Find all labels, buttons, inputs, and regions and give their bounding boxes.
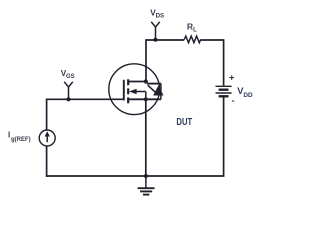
wire right vertical from battery - to bottom-right corner	[146, 97, 224, 176]
svg-text:DD: DD	[243, 92, 253, 99]
battery VDD plate 3 long	[216, 92, 232, 94]
DUT MOSFET circle	[109, 64, 160, 115]
svg-text:GS: GS	[66, 74, 75, 80]
body diode anode lead diagonal	[148, 85, 156, 92]
current source Ig(REF) circle	[39, 130, 55, 146]
ground bar 2	[140, 190, 152, 192]
battery VDD plate 4 short thick	[219, 95, 229, 97]
wire gate horizontal (left corner to gate bar)	[46, 98, 124, 100]
MOSFET body arrow (points left)	[129, 89, 137, 95]
MOSFET channel dash top	[127, 79, 129, 85]
wire right vertical from top-right corner to battery +	[223, 39, 225, 85]
body diode right vertical	[160, 84, 162, 100]
wire drain stem from top node down into DUT	[145, 39, 147, 81]
battery VDD plate 2 short thick	[219, 88, 229, 90]
svg-text:g(REF): g(REF)	[11, 137, 31, 143]
node dot drain junction	[144, 79, 148, 83]
MOSFET channel dash middle	[127, 88, 129, 94]
current source arrow (up)	[46, 136, 48, 142]
MOSFET drain bar	[129, 81, 147, 83]
body diode filled triangle	[153, 85, 163, 95]
battery plus sign	[229, 75, 234, 80]
MOSFET body-to-source tie	[145, 92, 147, 100]
ground bar 1	[138, 187, 155, 189]
svg-text:L: L	[193, 27, 197, 33]
node dot at V_GS probe junction	[66, 97, 70, 101]
V_DS probe stem and Y arms	[151, 22, 160, 40]
wire source stem down to ground node	[145, 99, 147, 176]
MOSFET channel dash bottom	[127, 97, 129, 103]
wire top horizontal right segment (resistor to top-right corner)	[201, 39, 224, 41]
ground bar 3	[143, 194, 149, 196]
body diode cathode bar	[147, 83, 161, 85]
svg-text:I: I	[8, 131, 10, 140]
ground stem	[145, 176, 147, 188]
node dot ground junction	[144, 174, 148, 178]
svg-text:DUT: DUT	[176, 117, 192, 128]
battery VDD plate 1 long	[216, 85, 232, 87]
battery minus sign	[232, 100, 234, 102]
MOSFET source bar	[129, 98, 161, 100]
node dot source junction	[144, 97, 148, 101]
node dot at V_DS probe junction	[153, 38, 157, 42]
svg-text:DS: DS	[156, 13, 165, 20]
wire bottom horizontal from ground node to bottom-left corner	[47, 175, 147, 177]
wire left vertical lower (bottom-left corner up to current source)	[46, 146, 48, 177]
V_GS probe stem and Y arms	[64, 82, 73, 100]
wire top horizontal left segment (node D to resistor)	[146, 39, 184, 41]
wire left vertical upper (current source up to gate corner)	[46, 99, 48, 130]
resistor RL zigzag	[184, 36, 201, 43]
MOSFET gate bar	[123, 80, 125, 101]
